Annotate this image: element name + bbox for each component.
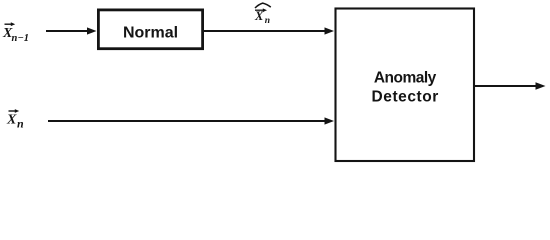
svg-text:Anomaly: Anomaly xyxy=(374,69,437,86)
block: Normal xyxy=(98,10,202,49)
label X_n (input vector, bottom-left) xyxy=(6,109,24,131)
wire: output arrow from Anomaly Detector xyxy=(475,82,546,90)
label X_{n-1} (input vector, top-left) xyxy=(2,22,29,44)
svg-text:n: n xyxy=(17,117,24,131)
wire: arrow from Normal block to Anomaly Detector (predicted X) xyxy=(204,27,334,34)
svg-text:Normal: Normal xyxy=(123,24,178,41)
label X-hat_n (predicted vector above wire) xyxy=(254,3,271,26)
block: Anomaly Detector xyxy=(336,9,475,162)
svg-text:n−1: n−1 xyxy=(12,33,29,44)
svg-text:Detector: Detector xyxy=(372,89,439,106)
svg-text:X: X xyxy=(254,9,264,23)
label: Anomaly Detector (two lines) xyxy=(372,69,439,105)
svg-text:X: X xyxy=(6,113,17,128)
svg-text:n: n xyxy=(265,16,270,26)
wire: arrow from X_n into Anomaly Detector xyxy=(48,117,334,124)
wire: arrow from X_{n-1} into Normal block xyxy=(46,27,97,34)
